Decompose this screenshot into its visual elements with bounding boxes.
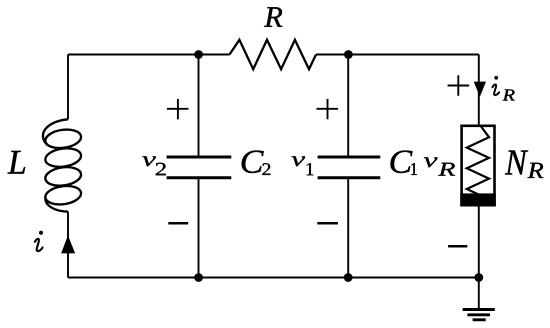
wire C1 branch lower (347, 179, 349, 277)
node top-right junction (344, 50, 353, 59)
label C2 (242, 151, 271, 175)
nonlinear resistor N_R box (462, 126, 495, 205)
wire C2 branch lower (198, 179, 200, 277)
capacitor C1 (318, 157, 381, 178)
capacitor C2 (167, 157, 232, 178)
wire bottom rail (68, 277, 479, 279)
minus sign v1 (317, 222, 338, 225)
label v2 (142, 156, 165, 175)
inductor L (43, 119, 82, 211)
wire left branch upper (67, 55, 69, 120)
wire right branch upper (478, 55, 480, 125)
resistor R (230, 40, 317, 69)
wire left branch lower (67, 212, 69, 278)
ground (463, 310, 495, 320)
plus sign v_R (448, 75, 470, 95)
label v_R (424, 157, 455, 175)
current arrow i (up) (61, 235, 75, 253)
N_R internal zigzag (467, 126, 489, 196)
wire to ground (478, 278, 480, 309)
plus sign v2 (167, 99, 189, 119)
N_R bottom black fill (460, 193, 496, 206)
label R (264, 7, 282, 27)
label N_R (505, 151, 543, 178)
wire top rail left (68, 54, 230, 56)
label v1 (292, 156, 314, 175)
wire right branch lower (478, 207, 480, 278)
label L (8, 151, 26, 174)
plus sign v1 (317, 99, 339, 119)
label i (35, 239, 43, 251)
node bottom C1 junction (344, 273, 353, 282)
wire C2 branch upper (198, 55, 200, 156)
wire top rail right (316, 54, 479, 56)
minus sign v_R (448, 245, 467, 248)
label C1 (391, 151, 417, 175)
node top-left junction (194, 50, 203, 59)
current arrow i_R (down) (474, 82, 486, 97)
minus sign v2 (168, 222, 188, 225)
wire C1 branch upper (347, 55, 349, 156)
node bottom C2 junction (194, 273, 203, 282)
node bottom-right junction (474, 273, 483, 282)
label i_R (493, 85, 500, 96)
